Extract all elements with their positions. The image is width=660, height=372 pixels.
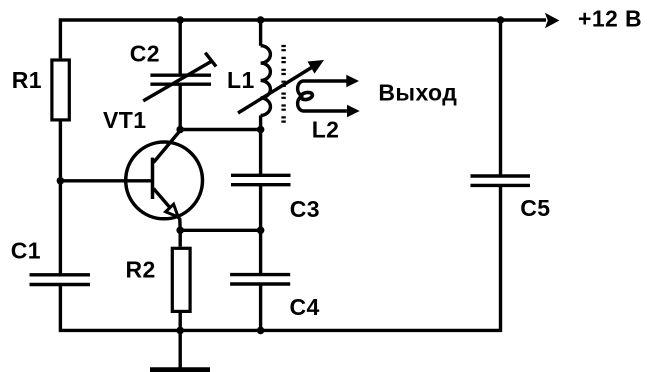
svg-text:VT1: VT1: [103, 107, 146, 133]
svg-text:+12 В: +12 В: [578, 6, 642, 32]
svg-text:Выход: Выход: [378, 80, 457, 106]
svg-text:L1: L1: [227, 67, 255, 93]
svg-text:C2: C2: [130, 41, 160, 67]
svg-text:R1: R1: [12, 67, 42, 93]
svg-text:L2: L2: [312, 117, 340, 143]
svg-text:R2: R2: [126, 256, 156, 282]
svg-text:C4: C4: [290, 294, 320, 320]
svg-text:C3: C3: [290, 196, 320, 222]
svg-text:C5: C5: [520, 195, 550, 221]
svg-text:C1: C1: [11, 237, 41, 263]
